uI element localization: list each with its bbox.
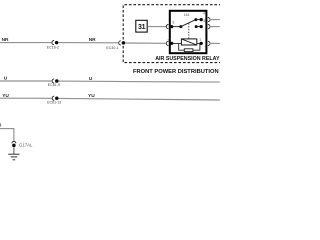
svg-text:U: U: [4, 76, 8, 82]
wire: fuse 31 to relay pin 3: [147, 26, 166, 28]
svg-text:EC61-9: EC61-9: [48, 83, 60, 87]
relay coil: [181, 39, 196, 45]
connector at ground (arc + dot): [12, 141, 16, 143]
svg-text:31: 31: [138, 24, 146, 31]
connector EC61-9 (arc + dot): [52, 79, 54, 83]
wire NR: EC40-1 to relay pin 2: [125, 42, 166, 44]
wire: relay pin 4 out to right: [210, 19, 220, 21]
wire YU: left segment: [0, 97, 52, 99]
ground wire: vertical segment: [13, 128, 15, 142]
svg-text:181: 181: [184, 13, 190, 17]
wire: resistor branch right: [193, 43, 200, 50]
switch contact node (pin 4 side): [194, 18, 197, 21]
wire U: right segment: [58, 81, 219, 82]
wire: resistor branch left: [179, 43, 185, 50]
switch contact node (pin 5 side): [195, 25, 198, 28]
switch arm: [181, 20, 196, 27]
relay pin 4 (dot + arc): [200, 18, 203, 21]
svg-text:5: 5: [204, 19, 206, 23]
wire: pin 2 to coil: [172, 42, 182, 44]
relay pin 3 (arc + dot): [166, 25, 168, 29]
relay pin 2 (arc + dot): [166, 41, 168, 45]
wire NR: left segment: [0, 42, 51, 44]
mechanical link (dashed): [188, 23, 190, 39]
ground wire: horizontal segment: [0, 128, 14, 130]
fuse 31: [136, 20, 147, 32]
wire: contact to pin 5: [196, 26, 201, 28]
svg-text:3: 3: [173, 21, 175, 25]
svg-text:U: U: [89, 76, 93, 82]
connector EC16-2 (arc + dot): [52, 41, 54, 45]
ground symbol G17AL: [8, 153, 19, 155]
suppression resistor (parallel with coil): [184, 49, 193, 52]
svg-text:G17AL: G17AL: [19, 143, 33, 148]
svg-text:EC40-1: EC40-1: [106, 46, 118, 50]
svg-text:EC61-13: EC61-13: [47, 100, 61, 104]
svg-text:1: 1: [199, 37, 201, 41]
svg-text:YU: YU: [2, 93, 9, 99]
svg-text:EC16-2: EC16-2: [47, 46, 59, 50]
svg-text:AIR SUSPENSION RELAY: AIR SUSPENSION RELAY: [155, 56, 220, 62]
wire: relay pin 1 out to right: [210, 42, 220, 44]
wire YU: right segment: [58, 98, 219, 100]
connector EC61-13 (arc + dot): [52, 96, 54, 100]
wire: relay pin 5 out to right: [210, 26, 220, 28]
svg-text:NR: NR: [2, 37, 9, 43]
svg-text:YU: YU: [88, 93, 95, 99]
air suspension relay box: [170, 11, 207, 53]
wire: contact to pin 4: [196, 19, 201, 21]
wire NR: middle segment: [58, 42, 118, 44]
wire: connector to ground symbol: [13, 147, 15, 154]
svg-text:B: B: [0, 122, 1, 127]
wire U: left segment: [0, 80, 52, 82]
svg-text:FRONT POWER DISTRIBUTION: FRONT POWER DISTRIBUTION: [133, 69, 219, 75]
relay pin 1 (dot + arc): [200, 42, 203, 45]
svg-text:4: 4: [203, 11, 205, 15]
wire: pin 3 to switch pivot: [172, 26, 181, 28]
svg-text:2: 2: [168, 38, 170, 42]
svg-text:NR: NR: [89, 37, 96, 43]
wire: coil to pin 1: [197, 42, 201, 44]
connector EC40-1 (arc + dot): [119, 41, 121, 45]
switch pivot node: [179, 25, 182, 28]
relay pin 5 (dot + arc): [200, 25, 203, 28]
front power distribution box (dashed enclosure): [123, 5, 226, 63]
